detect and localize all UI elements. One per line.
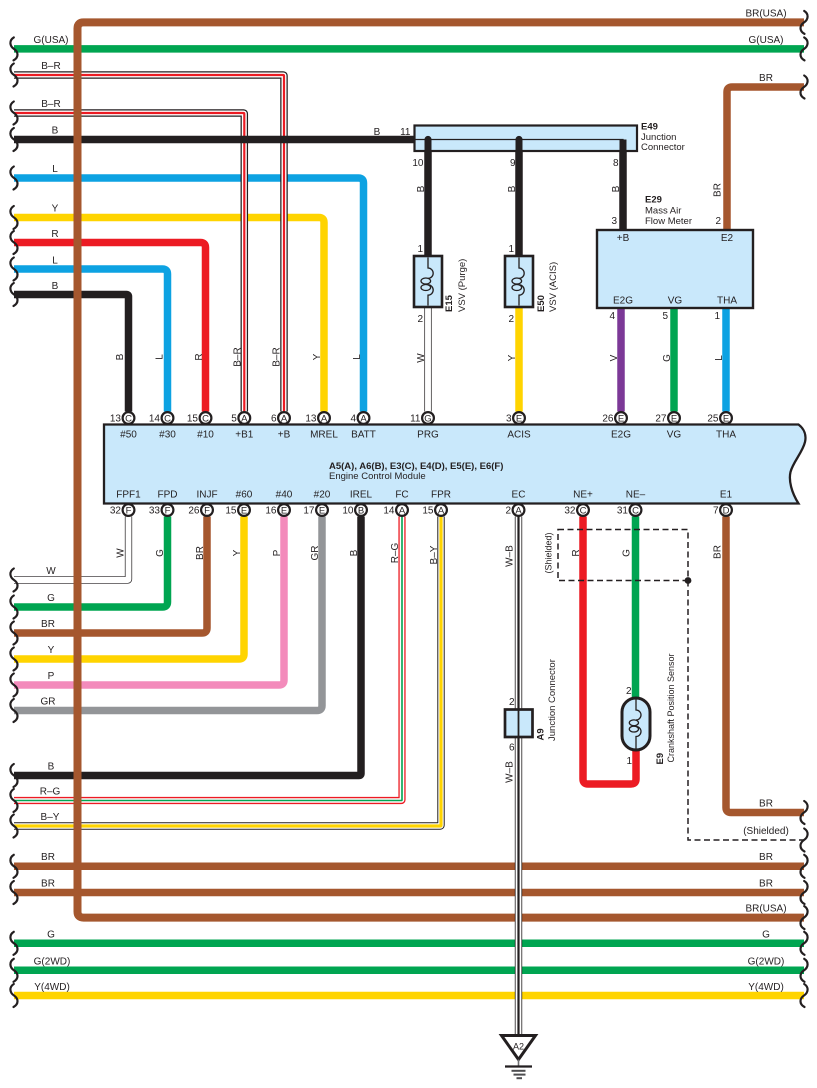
wire B drop E49-8 to E29 +B <box>619 140 627 232</box>
pin 16 (E) #40 <box>265 504 290 516</box>
svg-text:B: B <box>358 505 364 516</box>
wire BR from right to E29 E2 <box>727 87 804 231</box>
wire L from E29 THA to ECM 25(E) <box>722 307 730 412</box>
VSV valve E15 (Purge) <box>414 256 442 307</box>
wire Y from E50 to ECM ACIS 3(E) <box>515 307 523 412</box>
svg-text:6: 6 <box>271 414 277 425</box>
svg-text:R–G: R–G <box>40 787 61 798</box>
pin 32 (C) NE+ <box>564 504 589 516</box>
svg-text:B: B <box>349 549 360 556</box>
wire BR row 2 <box>14 889 804 897</box>
svg-text:G(USA): G(USA) <box>749 35 784 46</box>
svg-text:E: E <box>319 505 325 516</box>
svg-text:B–R: B–R <box>41 61 60 72</box>
svg-text:E: E <box>516 413 522 424</box>
wire B-Y from ECM FPR <box>14 517 441 827</box>
svg-text:8: 8 <box>613 158 619 169</box>
svg-text:G: G <box>47 930 55 941</box>
pin 13 (C) #50 <box>110 412 135 425</box>
svg-text:B: B <box>48 762 55 773</box>
pin 13 (A) MREL <box>305 412 330 425</box>
svg-text:6: 6 <box>509 743 515 754</box>
svg-text:B–R: B–R <box>272 347 283 366</box>
svg-text:EC: EC <box>512 490 526 501</box>
svg-text:B–R: B–R <box>41 99 60 110</box>
svg-text:W: W <box>116 548 127 558</box>
svg-text:D: D <box>723 505 730 516</box>
pin 26 (F) INJF <box>188 504 213 516</box>
svg-text:BR: BR <box>195 546 206 560</box>
left edge wire break symbols <box>10 37 17 1007</box>
wire Y(4WD) row <box>14 992 804 1000</box>
svg-text:2: 2 <box>509 697 515 708</box>
wire B-R to ECM +B 6(A) <box>14 75 284 412</box>
pin 5 (A) +B1 <box>231 412 250 425</box>
svg-text:E2G: E2G <box>611 430 631 441</box>
svg-text:2: 2 <box>417 314 423 325</box>
svg-text:G: G <box>47 593 55 604</box>
svg-text:BR: BR <box>759 879 773 890</box>
svg-text:VSV (Purge): VSV (Purge) <box>457 259 468 312</box>
svg-text:E50: E50 <box>536 295 547 312</box>
pin 15 (A) FPR <box>422 504 447 516</box>
svg-text:R: R <box>51 229 58 240</box>
svg-text:W: W <box>46 566 56 577</box>
pin 15 (C) #10 <box>187 412 212 425</box>
svg-text:#30: #30 <box>159 430 176 441</box>
svg-text:(Shielded): (Shielded) <box>544 532 554 573</box>
pin 3 (E) ACIS <box>506 412 525 425</box>
svg-text:A: A <box>281 413 288 424</box>
svg-text:A: A <box>438 505 445 516</box>
svg-text:E9: E9 <box>655 753 666 765</box>
pin 7 (D) E1 <box>713 504 732 516</box>
svg-text:P: P <box>272 549 283 556</box>
svg-text:7: 7 <box>713 506 719 517</box>
svg-text:BR: BR <box>41 619 55 630</box>
svg-text:L: L <box>52 164 58 175</box>
svg-text:4: 4 <box>609 311 615 322</box>
wire G from ECM FPD <box>14 517 168 608</box>
junction connector A9 <box>505 710 533 738</box>
wire G row <box>14 940 804 948</box>
svg-text:IREL: IREL <box>350 490 373 501</box>
svg-text:+B: +B <box>617 233 630 244</box>
svg-text:15: 15 <box>422 506 434 517</box>
svg-text:Y(4WD): Y(4WD) <box>34 982 70 993</box>
svg-text:5: 5 <box>662 311 668 322</box>
svg-text:2: 2 <box>715 216 721 227</box>
svg-text:11: 11 <box>410 414 421 425</box>
svg-text:A: A <box>241 413 248 424</box>
pin 11 (G) PRG <box>410 412 434 425</box>
chassis ground bars <box>505 1067 532 1079</box>
svg-text:E2: E2 <box>721 233 734 244</box>
wire R from ECM NE+ to E9 pin 1 <box>583 517 636 785</box>
svg-text:A: A <box>360 413 367 424</box>
svg-text:4: 4 <box>350 414 356 425</box>
wire W from E15 to ECM PRG 11(G) <box>424 307 431 412</box>
svg-text:33: 33 <box>149 506 161 517</box>
svg-text:GR: GR <box>41 697 56 708</box>
svg-text:G(2WD): G(2WD) <box>748 957 785 968</box>
svg-text:G: G <box>622 549 633 557</box>
svg-text:B: B <box>611 185 622 192</box>
svg-text:BR(USA): BR(USA) <box>745 9 786 20</box>
svg-text:E1: E1 <box>720 490 733 501</box>
svg-text:Crankshaft Position Sensor: Crankshaft Position Sensor <box>666 653 676 762</box>
pin 25 (E) THA <box>707 412 732 425</box>
svg-text:Junction Connector: Junction Connector <box>547 659 558 741</box>
svg-text:G: G <box>424 413 431 424</box>
svg-text:BR(USA): BR(USA) <box>745 904 786 915</box>
svg-text:A: A <box>515 505 522 516</box>
svg-text:ACIS: ACIS <box>507 430 531 441</box>
wire G(2WD) row <box>14 967 804 975</box>
svg-text:V: V <box>609 354 620 361</box>
svg-text:B: B <box>52 126 59 137</box>
svg-text:E: E <box>281 505 287 516</box>
svg-text:#20: #20 <box>314 490 331 501</box>
svg-text:2: 2 <box>508 314 514 325</box>
svg-text:G: G <box>155 549 166 557</box>
wire B-R to ECM +B1 5(A) <box>14 113 244 412</box>
svg-text:1: 1 <box>714 311 720 322</box>
svg-text:MREL: MREL <box>310 430 338 441</box>
pin 10 (B) IREL <box>342 504 367 516</box>
pin 26 (E) E2G <box>602 412 627 425</box>
pin 14 (C) #30 <box>149 412 174 425</box>
svg-text:E15: E15 <box>444 294 455 312</box>
mass air flow meter E29 <box>597 230 753 308</box>
svg-text:A: A <box>321 413 328 424</box>
pin 14 (A) FC <box>383 504 408 516</box>
svg-text:15: 15 <box>225 506 237 517</box>
svg-text:W–B: W–B <box>505 761 516 783</box>
svg-text:+B: +B <box>278 430 291 441</box>
wire B to E49 pin 11 <box>14 136 416 144</box>
svg-text:10: 10 <box>412 158 424 169</box>
svg-text:15: 15 <box>187 414 199 425</box>
svg-text:A9: A9 <box>536 728 547 740</box>
svg-text:Y: Y <box>52 204 59 215</box>
svg-text:B–Y: B–Y <box>429 545 440 564</box>
junction connector E49 <box>415 126 638 153</box>
svg-text:Engine Control Module: Engine Control Module <box>329 471 426 482</box>
svg-text:BR: BR <box>713 545 724 559</box>
svg-text:3: 3 <box>506 414 512 425</box>
svg-text:L: L <box>714 355 725 361</box>
crankshaft position sensor E9 <box>622 698 650 750</box>
svg-text:VG: VG <box>667 430 682 441</box>
wire BR(USA) main run <box>78 22 805 917</box>
svg-text:W: W <box>416 353 427 363</box>
svg-text:5: 5 <box>231 414 237 425</box>
VSV valve E50 (ACIS) <box>505 256 533 307</box>
svg-text:Y: Y <box>507 354 518 361</box>
pin 2 (A) EC <box>505 504 524 516</box>
svg-text:FPR: FPR <box>431 490 451 501</box>
svg-text:E: E <box>241 505 247 516</box>
wire Y to ECM MREL 13(A) <box>14 218 324 412</box>
svg-text:10: 10 <box>342 506 354 517</box>
svg-text:Y(4WD): Y(4WD) <box>748 982 784 993</box>
shield drain dashed wire <box>688 581 804 841</box>
ground A2 <box>502 1036 536 1067</box>
svg-text:32: 32 <box>110 506 122 517</box>
svg-text:BR: BR <box>759 799 773 810</box>
wire G(USA) horizontal <box>14 45 804 53</box>
pin 4 (A) BATT <box>350 412 369 425</box>
svg-text:F: F <box>126 505 132 516</box>
pin 33 (F) FPD <box>149 504 174 516</box>
svg-text:FC: FC <box>395 490 408 501</box>
svg-text:14: 14 <box>149 414 161 425</box>
wire G from ECM NE- to E9 pin 2 <box>632 517 640 702</box>
shield dashed box around NE+/NE- <box>558 530 688 581</box>
svg-text:FPD: FPD <box>158 490 178 501</box>
svg-text:G: G <box>662 354 673 362</box>
wire R to ECM #10 15(C) <box>14 243 206 412</box>
svg-text:C: C <box>125 413 132 424</box>
svg-text:B–R: B–R <box>233 347 244 366</box>
svg-text:17: 17 <box>303 506 315 517</box>
svg-text:F: F <box>204 505 210 516</box>
svg-text:INJF: INJF <box>196 490 217 501</box>
wire W from ECM FPF1 <box>14 517 129 581</box>
svg-text:L: L <box>352 354 363 360</box>
wire BR from ECM E1 <box>726 517 804 813</box>
svg-text:14: 14 <box>383 506 395 517</box>
wire B drop E49-10 to E15 <box>424 140 432 258</box>
svg-text:BR: BR <box>759 73 773 84</box>
svg-text:Mass Air: Mass Air <box>645 206 681 217</box>
svg-text:2: 2 <box>626 686 632 697</box>
pin 27 (E) VG <box>655 412 680 425</box>
svg-text:E: E <box>671 413 677 424</box>
wire W-B from ECM EC to ground A2 <box>515 517 522 1036</box>
svg-text:#60: #60 <box>236 490 253 501</box>
svg-text:FPF1: FPF1 <box>116 490 141 501</box>
svg-text:(Shielded): (Shielded) <box>743 826 789 837</box>
svg-text:PRG: PRG <box>417 430 439 441</box>
svg-text:BR: BR <box>713 183 724 197</box>
svg-text:Y: Y <box>232 549 243 556</box>
wire B from ECM IREL <box>14 517 361 776</box>
svg-text:B: B <box>52 281 59 292</box>
svg-text:+B1: +B1 <box>235 430 254 441</box>
svg-text:13: 13 <box>305 414 317 425</box>
svg-text:1: 1 <box>417 244 423 255</box>
svg-text:C: C <box>632 505 639 516</box>
svg-text:BR: BR <box>41 852 55 863</box>
svg-text:G: G <box>762 930 770 941</box>
svg-text:31: 31 <box>617 506 629 517</box>
svg-text:Y: Y <box>48 645 55 656</box>
svg-text:#10: #10 <box>197 430 214 441</box>
svg-text:G(2WD): G(2WD) <box>34 957 71 968</box>
wire L to ECM BATT 4(A) <box>14 178 364 412</box>
pin 32 (F) FPF1 <box>110 504 135 516</box>
svg-text:VG: VG <box>668 296 683 307</box>
svg-text:B: B <box>416 185 427 192</box>
svg-text:Y: Y <box>312 353 323 360</box>
svg-text:L: L <box>155 354 166 360</box>
wire Y from ECM #60 <box>14 517 244 660</box>
svg-text:R: R <box>194 353 205 360</box>
wire B to ECM #50 13(C) <box>14 295 129 412</box>
svg-text:16: 16 <box>265 506 277 517</box>
svg-text:NE+: NE+ <box>573 490 593 501</box>
svg-text:Flow Meter: Flow Meter <box>645 216 692 227</box>
svg-text:1: 1 <box>626 756 632 767</box>
wire V from E29 E2G to ECM 26(E) <box>617 307 625 412</box>
svg-text:THA: THA <box>717 296 737 307</box>
svg-text:E: E <box>618 413 624 424</box>
svg-text:E: E <box>723 413 729 424</box>
svg-text:E49: E49 <box>641 122 658 133</box>
pin 6 (A) +B <box>271 412 290 425</box>
svg-text:A: A <box>399 505 406 516</box>
svg-text:C: C <box>164 413 171 424</box>
E49 junction dot pin 10 <box>424 136 431 143</box>
svg-text:1: 1 <box>508 244 514 255</box>
svg-text:E2G: E2G <box>613 296 633 307</box>
svg-text:13: 13 <box>110 414 122 425</box>
wire BR from ECM INJF <box>14 517 207 634</box>
svg-text:9: 9 <box>510 158 516 169</box>
svg-text:C: C <box>202 413 209 424</box>
wire G from E29 VG to ECM 27(E) <box>670 307 678 412</box>
svg-text:F: F <box>165 505 171 516</box>
svg-text:E29: E29 <box>645 195 662 206</box>
pin 31 (C) NE- <box>617 504 642 516</box>
svg-text:R–G: R–G <box>390 542 401 563</box>
wire B drop E49-9 to E50 <box>515 140 523 258</box>
svg-text:B: B <box>374 127 381 138</box>
svg-text:C: C <box>580 505 587 516</box>
svg-text:L: L <box>52 256 58 267</box>
right edge wire break symbols <box>801 11 808 1007</box>
svg-text:11: 11 <box>400 127 411 138</box>
svg-text:B: B <box>115 353 126 360</box>
svg-text:27: 27 <box>655 414 667 425</box>
svg-text:25: 25 <box>707 414 719 425</box>
svg-text:GR: GR <box>310 546 321 561</box>
svg-text:Connector: Connector <box>641 142 685 153</box>
shield junction dot <box>685 577 692 584</box>
svg-text:2: 2 <box>505 506 511 517</box>
svg-text:BR: BR <box>41 879 55 890</box>
svg-text:32: 32 <box>564 506 576 517</box>
wire BR row 1 <box>14 863 804 871</box>
svg-text:A2: A2 <box>513 1042 524 1052</box>
svg-text:3: 3 <box>611 216 617 227</box>
wire GR from ECM #20 <box>14 517 322 711</box>
svg-text:BATT: BATT <box>351 430 376 441</box>
svg-text:B–Y: B–Y <box>41 812 60 823</box>
svg-text:#40: #40 <box>276 490 293 501</box>
E49 junction dot pin 9 <box>515 136 522 143</box>
svg-text:R: R <box>571 549 582 556</box>
svg-text:26: 26 <box>602 414 614 425</box>
pin 15 (E) #60 <box>225 504 250 516</box>
engine control module ECM <box>104 425 805 504</box>
svg-text:BR: BR <box>759 852 773 863</box>
svg-text:VSV (ACIS): VSV (ACIS) <box>548 262 559 312</box>
wire R-G from ECM FC <box>14 517 402 801</box>
svg-text:B: B <box>507 185 518 192</box>
svg-text:P: P <box>48 671 55 682</box>
wire L to ECM #30 14(C) <box>14 269 168 412</box>
pin 17 (E) #20 <box>303 504 328 516</box>
svg-text:NE–: NE– <box>626 490 646 501</box>
svg-text:THA: THA <box>716 430 736 441</box>
svg-text:G(USA): G(USA) <box>34 35 69 46</box>
svg-text:26: 26 <box>188 506 200 517</box>
svg-text:#50: #50 <box>120 430 137 441</box>
svg-text:W–B: W–B <box>505 545 516 567</box>
wire P from ECM #40 <box>14 517 284 686</box>
